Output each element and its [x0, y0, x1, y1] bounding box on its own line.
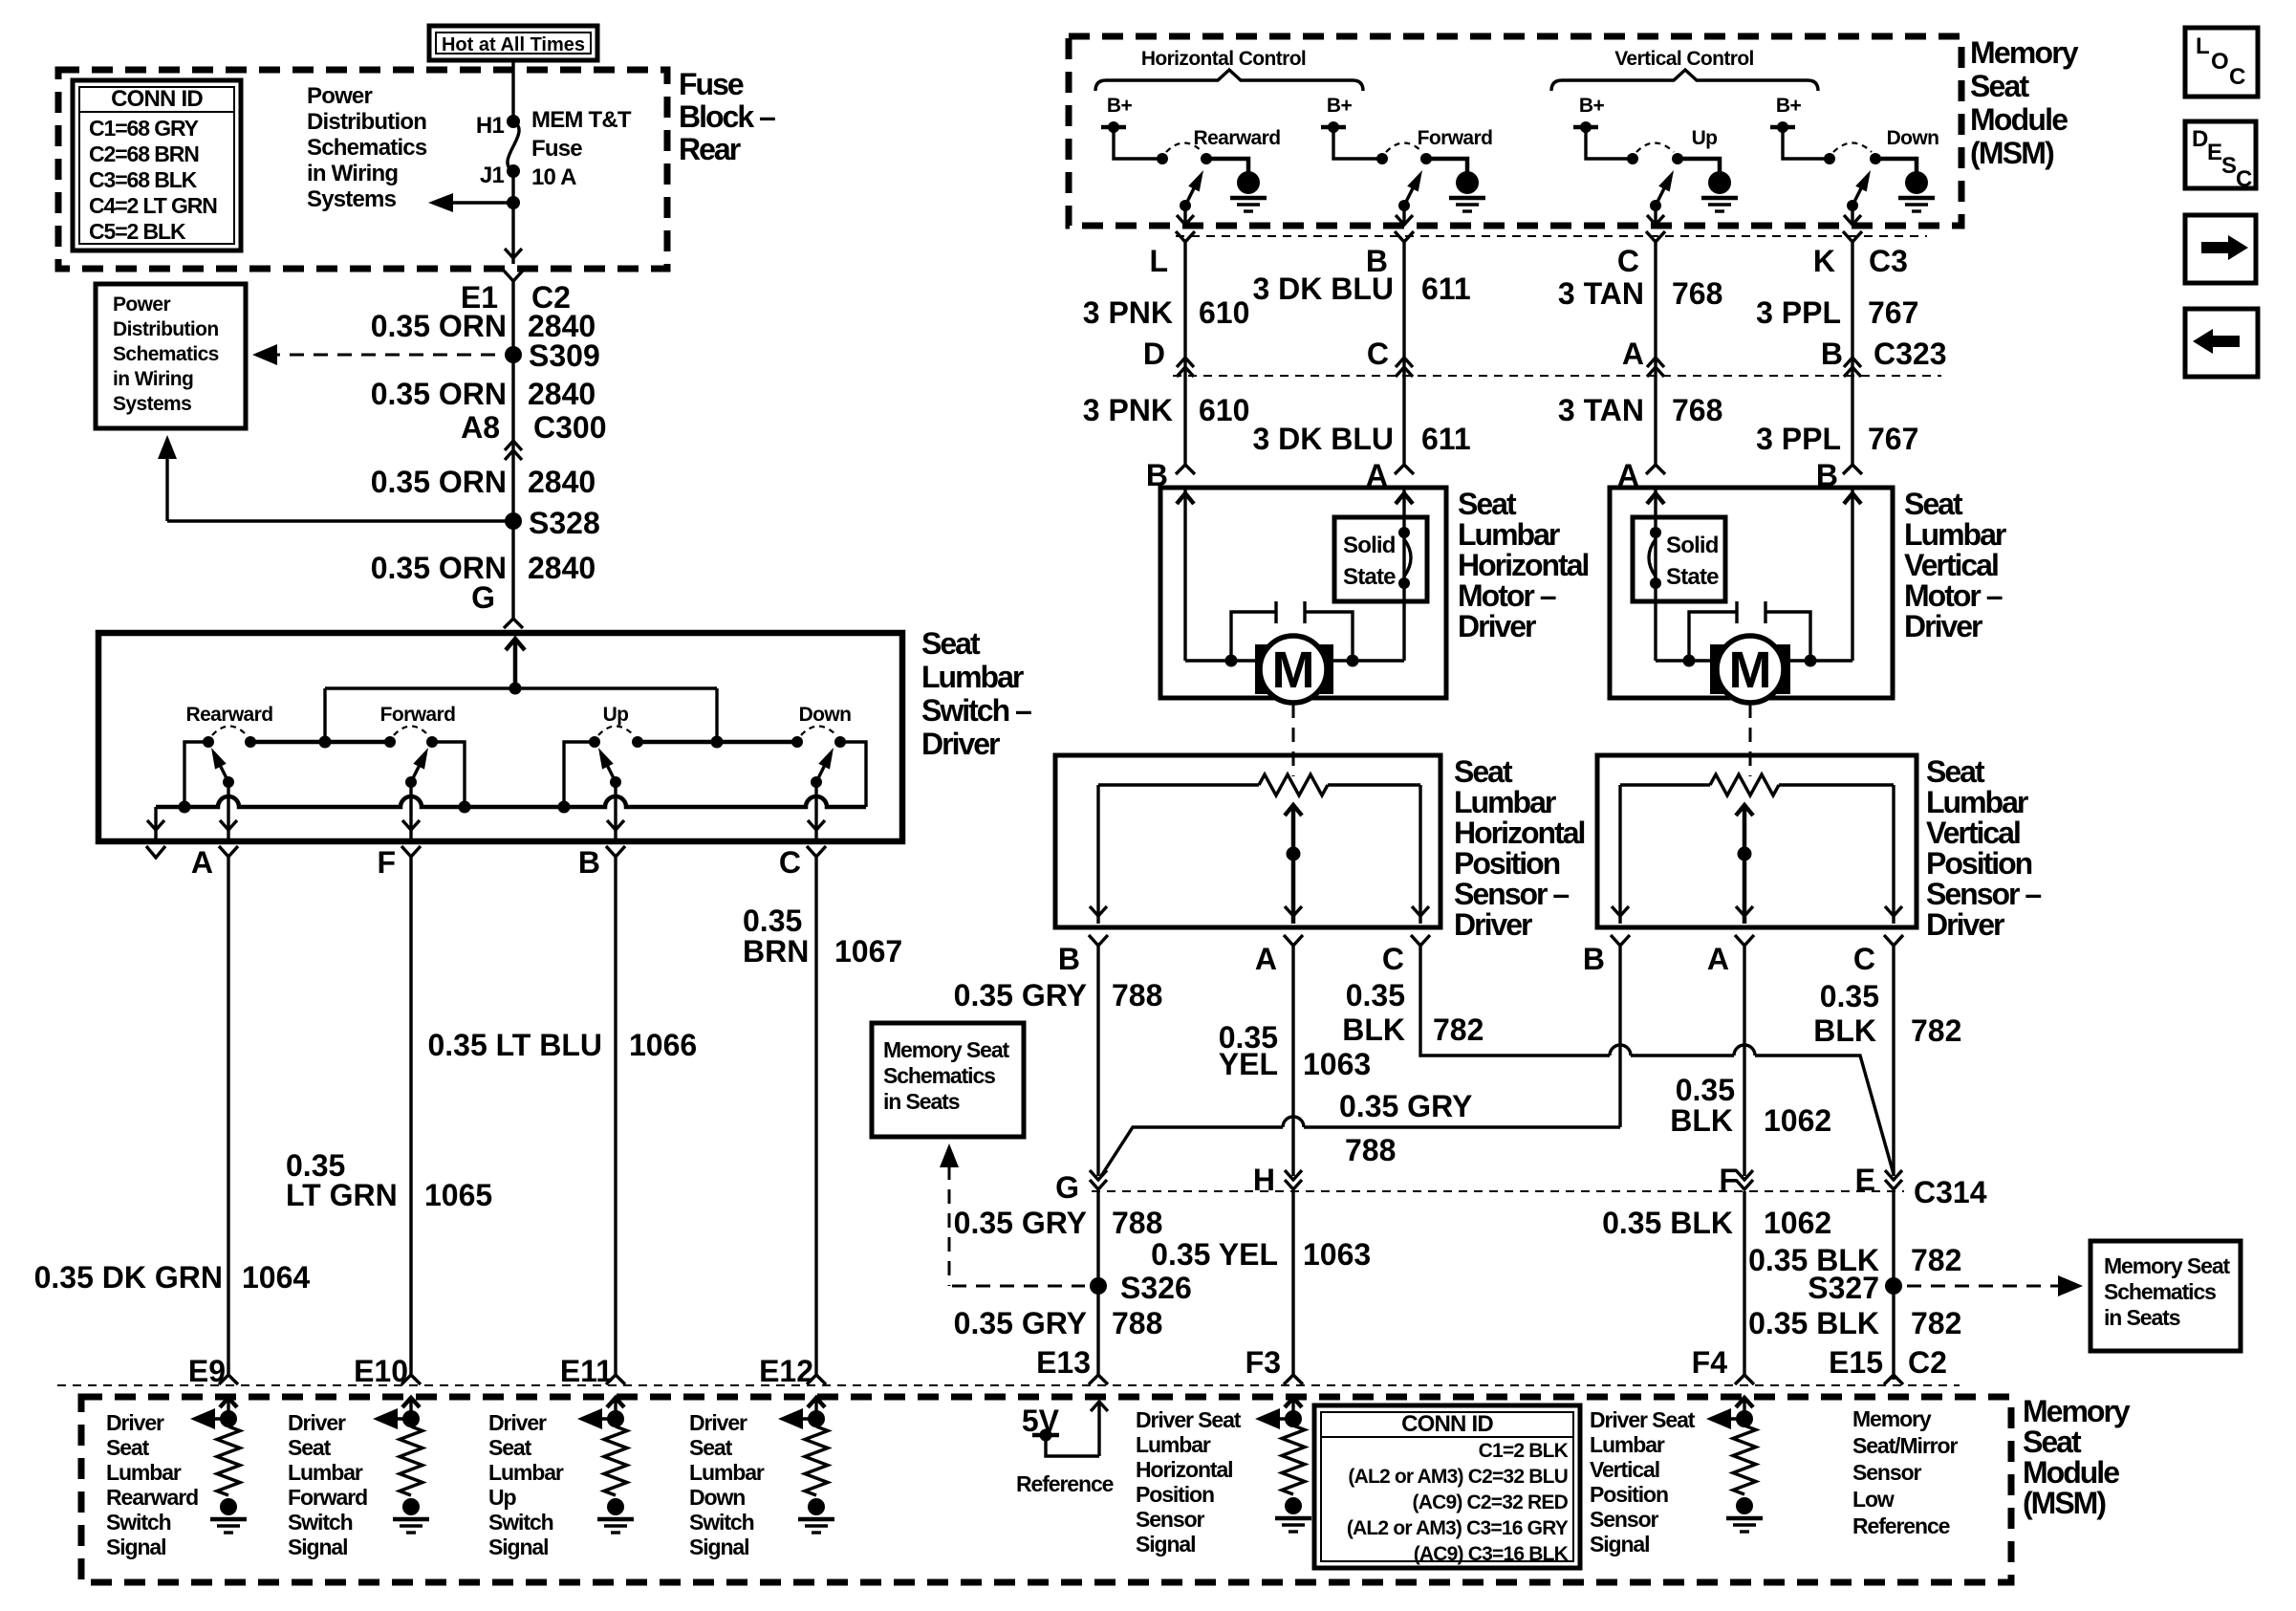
connector fork E1/C2: [504, 271, 523, 281]
svg-text:S328: S328: [529, 506, 600, 540]
junction to power distribution arrow: [507, 196, 520, 209]
svg-text:1066: 1066: [629, 1028, 697, 1062]
branch arrow to signal name: [206, 1417, 228, 1420]
svg-text:A: A: [1707, 942, 1729, 976]
connector C323 dashed line: [1173, 375, 1941, 377]
svg-text:2840: 2840: [528, 465, 596, 499]
svg-text:0.35 GRY: 0.35 GRY: [954, 1306, 1087, 1340]
pin fork at module: [219, 1375, 238, 1384]
pin fork at module: [807, 1375, 826, 1384]
svg-text:1062: 1062: [1764, 1103, 1831, 1138]
lever Up: [1650, 200, 1661, 211]
svg-text:F4: F4: [1692, 1345, 1728, 1380]
resistor: [400, 1426, 422, 1495]
pin fork at module: [606, 1375, 625, 1384]
svg-text:0.35 LT BLU: 0.35 LT BLU: [427, 1028, 602, 1062]
ground stub Rearward: [1206, 159, 1248, 172]
wire A right sensor to F (0.35 BLK 1062): [1743, 946, 1745, 1176]
module internal wire/arrow: [614, 1398, 617, 1419]
svg-text:611: 611: [1421, 422, 1471, 456]
svg-text:Hot at All Times: Hot at All Times: [442, 34, 585, 55]
svg-text:C323: C323: [1874, 337, 1947, 371]
Forward right contact drop: [432, 742, 465, 807]
svg-text:F3: F3: [1245, 1345, 1281, 1380]
switch contact dots Rearward: [203, 736, 214, 748]
svg-text:B: B: [1583, 942, 1605, 976]
C323 crossing arrows at 1240: [1177, 367, 1194, 377]
svg-text:D: D: [1143, 337, 1165, 371]
svg-text:B+: B+: [1107, 95, 1133, 117]
svg-text:3 DK BLU: 3 DK BLU: [1252, 422, 1394, 456]
ground stub Forward: [1426, 159, 1467, 172]
svg-text:2840: 2840: [528, 551, 596, 585]
fork at motor pin 1938: [1843, 465, 1862, 474]
svg-text:YEL: YEL: [1219, 1047, 1278, 1081]
fork below C3 at 1469: [1395, 231, 1414, 242]
dashed arc Up: [598, 727, 634, 736]
suppressor capacitor (left motor): [1276, 601, 1305, 623]
svg-text:C300: C300: [533, 410, 607, 445]
svg-text:C: C: [1853, 942, 1875, 976]
svg-text:767: 767: [1868, 295, 1918, 330]
svg-text:K: K: [1813, 244, 1835, 278]
left arrow legend box: [2185, 309, 2258, 377]
potentiometer (left sensor): [1098, 783, 1259, 786]
Seat Lumbar Switch - Driver box: [98, 633, 902, 841]
arrow to power distribution (left): [445, 201, 513, 204]
potentiometer (right sensor): [1620, 783, 1710, 786]
Hot at All Times label box: [429, 26, 597, 60]
svg-text:0.35: 0.35: [1346, 978, 1405, 1012]
svg-text:782: 782: [1911, 1013, 1961, 1048]
svg-text:C: C: [1367, 337, 1389, 371]
svg-text:3 PPL: 3 PPL: [1756, 295, 1841, 330]
G feed entry arrow: [513, 639, 518, 688]
svg-text:BLK: BLK: [1813, 1013, 1876, 1048]
motor M (right): [1656, 659, 1852, 662]
svg-text:Down: Down: [799, 704, 852, 726]
wiper (left sensor): [1291, 805, 1296, 924]
switch contacts Rearward: [1157, 153, 1168, 164]
switch output wire Down: [1851, 206, 1853, 226]
svg-text:Horizontal Control: Horizontal Control: [1141, 48, 1306, 70]
svg-text:B+: B+: [1776, 95, 1802, 117]
Seat Lumbar Vertical Motor - Driver box: [1610, 488, 1893, 698]
svg-text:0.35 GRY: 0.35 GRY: [954, 1206, 1087, 1240]
lever Rearward: [223, 776, 234, 788]
svg-text:O: O: [2211, 49, 2228, 75]
wire segment 1732 C323 to motor: [1654, 376, 1657, 465]
svg-text:0.35: 0.35: [1676, 1073, 1735, 1107]
left motor A wire: [1402, 488, 1405, 661]
svg-text:F: F: [377, 845, 396, 880]
svg-text:LT GRN: LT GRN: [286, 1178, 398, 1212]
wire B left sensor to G (0.35 GRY 788): [1096, 946, 1099, 1176]
svg-text:1065: 1065: [424, 1178, 492, 1212]
svg-text:BRN: BRN: [743, 934, 809, 969]
svg-text:B: B: [1821, 337, 1843, 371]
switch contacts Forward: [1376, 153, 1388, 164]
wire C down to module: [814, 857, 817, 1375]
switch contacts Up: [1627, 153, 1638, 164]
svg-text:L: L: [1149, 244, 1168, 278]
svg-text:788: 788: [1112, 1306, 1162, 1340]
Memory Seat Schematics in Seats box (left): [872, 1023, 1024, 1137]
dashed link motor to sensor (right): [1749, 704, 1752, 776]
svg-text:BLK: BLK: [1342, 1012, 1405, 1047]
wire H to F3 (0.35 YEL 1063): [1291, 1191, 1294, 1375]
fork at motor pin 1469: [1395, 465, 1414, 474]
lever Rearward: [1180, 200, 1191, 211]
dashed arc Down: [801, 727, 836, 736]
wiper (right sensor): [1743, 805, 1747, 924]
Solid State box (left motor): [1334, 517, 1427, 601]
switch output wire Forward: [1402, 206, 1405, 226]
svg-text:Up: Up: [1692, 127, 1718, 149]
lever Up: [610, 776, 621, 788]
svg-text:Reference: Reference: [1016, 1471, 1114, 1496]
LOC legend box: [2185, 28, 2258, 97]
svg-text:M: M: [1729, 642, 1772, 699]
svg-text:B+: B+: [1579, 95, 1605, 117]
svg-text:BLK: BLK: [1670, 1103, 1733, 1138]
svg-text:B: B: [578, 845, 600, 880]
ground: [220, 1498, 237, 1515]
svg-text:CONN ID: CONN ID: [111, 86, 203, 112]
Solid State box (right motor): [1633, 517, 1725, 601]
common bus with hops: [156, 796, 866, 807]
svg-text:788: 788: [1112, 978, 1162, 1012]
wire below fuse: [511, 171, 514, 264]
lever wire down Forward: [409, 782, 412, 838]
switch contact dots Forward: [384, 736, 396, 748]
svg-text:C: C: [779, 845, 801, 880]
wire F down to module: [409, 857, 412, 1375]
wire segment 1938 C3 to C323: [1851, 242, 1853, 376]
svg-text:H1: H1: [476, 113, 505, 139]
switch contacts Down: [1824, 153, 1835, 164]
svg-text:G: G: [1055, 1170, 1079, 1205]
module internal wire/arrow: [227, 1398, 229, 1419]
svg-text:768: 768: [1672, 393, 1722, 427]
svg-text:B+: B+: [1327, 95, 1353, 117]
motor M (left): [1185, 659, 1404, 662]
ground: [808, 1498, 825, 1515]
fuse F MEM T&T 10A: [507, 115, 520, 128]
ground: [402, 1498, 420, 1515]
svg-text:G: G: [471, 580, 495, 615]
fork below C3 at 1240: [1176, 231, 1195, 242]
Power Distribution Schematics box: [96, 284, 246, 428]
svg-text:C3: C3: [1869, 244, 1908, 278]
connector C314 dashed line: [1092, 1190, 1904, 1192]
Down right contact drop: [840, 742, 866, 807]
svg-text:3 PPL: 3 PPL: [1756, 422, 1841, 456]
fork below C3 at 1938: [1843, 231, 1862, 242]
resistor: [217, 1426, 240, 1495]
svg-text:E: E: [1855, 1163, 1875, 1197]
svg-text:0.35 ORN: 0.35 ORN: [371, 377, 507, 411]
wire G to E13 (0.35 GRY 788): [1096, 1191, 1099, 1375]
connector C3 dashed line: [1176, 235, 1927, 237]
svg-text:1063: 1063: [1303, 1237, 1371, 1272]
fork at motor pin 1732: [1646, 465, 1665, 474]
dashed arc Forward: [394, 727, 428, 736]
svg-text:0.35 YEL: 0.35 YEL: [1151, 1237, 1278, 1272]
svg-text:D: D: [2192, 126, 2208, 152]
lever wire down Rearward: [227, 782, 229, 838]
fork below C3 at 1732: [1646, 231, 1665, 242]
Rearward left contact drop: [184, 742, 208, 807]
svg-text:L: L: [2196, 33, 2209, 59]
svg-text:E12: E12: [759, 1354, 813, 1388]
branch arrow to signal name: [388, 1417, 411, 1420]
svg-text:J1: J1: [480, 163, 505, 188]
svg-text:1063: 1063: [1303, 1047, 1371, 1081]
wire segment 1732 C3 to C323: [1654, 242, 1657, 376]
wire B down to module: [614, 857, 617, 1375]
right arrow legend box: [2185, 215, 2256, 283]
wire E to E15 (0.35 BLK 782): [1892, 1191, 1895, 1380]
svg-text:CONN ID: CONN ID: [1401, 1411, 1493, 1437]
svg-text:E11: E11: [560, 1354, 613, 1388]
ground: [607, 1498, 624, 1515]
svg-text:0.35 GRY: 0.35 GRY: [1339, 1089, 1472, 1123]
svg-text:3 TAN: 3 TAN: [1558, 393, 1644, 427]
connector C300 crossing: [505, 450, 522, 460]
svg-text:782: 782: [1911, 1306, 1961, 1340]
svg-text:S327: S327: [1808, 1271, 1879, 1305]
svg-text:E13: E13: [1036, 1345, 1091, 1380]
svg-text:3 PNK: 3 PNK: [1083, 295, 1173, 330]
svg-text:E: E: [2207, 140, 2222, 165]
splice S326: [1090, 1277, 1107, 1295]
svg-text:782: 782: [1433, 1012, 1484, 1047]
splice S328: [505, 512, 522, 530]
svg-text:3 PNK: 3 PNK: [1083, 393, 1173, 427]
arrow exiting fuse block: [505, 249, 522, 258]
lever Forward: [1398, 200, 1410, 211]
feed line: [325, 686, 717, 689]
wire segment 1240 C3 to C323: [1183, 242, 1186, 376]
svg-text:A8: A8: [461, 410, 500, 445]
svg-text:Forward: Forward: [380, 704, 456, 726]
branch arrow to signal name: [793, 1417, 816, 1420]
contact line Up-Down: [638, 740, 797, 745]
open connector v below box: [146, 846, 165, 858]
CONN ID table (fuse block): [73, 80, 241, 250]
wire F to F4 (0.35 BLK 1062): [1743, 1191, 1745, 1375]
wire from Hot at All Times into fuse: [511, 60, 514, 121]
left motor B wire: [1183, 488, 1186, 661]
svg-text:3 TAN: 3 TAN: [1558, 276, 1644, 311]
module internal wire/arrow: [814, 1398, 817, 1419]
svg-text:788: 788: [1112, 1206, 1162, 1240]
svg-text:0.35 BLK: 0.35 BLK: [1748, 1306, 1879, 1340]
svg-text:Rearward: Rearward: [1194, 127, 1281, 149]
svg-text:0.35 DK GRN: 0.35 DK GRN: [34, 1260, 223, 1295]
C323 crossing arrows at 1938: [1844, 367, 1861, 377]
svg-text:C2: C2: [1908, 1345, 1947, 1380]
lever Down: [1847, 200, 1858, 211]
svg-text:2840: 2840: [528, 377, 596, 411]
ground stub Up: [1678, 159, 1720, 172]
svg-text:Vertical Control: Vertical Control: [1614, 48, 1754, 70]
Memory Seat Module (MSM) bottom dashed box: [81, 1397, 2011, 1582]
resistor: [604, 1426, 627, 1495]
wire A down to module: [227, 857, 229, 1375]
Seat Lumbar Horizontal Motor - Driver box: [1160, 488, 1446, 698]
suppressor capacitor (right motor): [1737, 601, 1765, 623]
bus exit arrow: [154, 807, 157, 838]
svg-text:3 DK BLU: 3 DK BLU: [1252, 272, 1394, 306]
svg-text:A: A: [1622, 337, 1644, 371]
Up left contact drop: [564, 742, 595, 807]
svg-text:C: C: [1382, 942, 1404, 976]
wire segment 1240 C323 to motor: [1183, 376, 1186, 465]
svg-text:788: 788: [1345, 1133, 1396, 1167]
svg-text:1064: 1064: [242, 1260, 310, 1295]
branch arrow to signal name: [593, 1417, 616, 1420]
dashed arc Rearward: [212, 727, 247, 736]
svg-text:C: C: [2229, 64, 2245, 90]
svg-text:768: 768: [1672, 276, 1722, 311]
svg-text:0.35: 0.35: [1820, 979, 1879, 1013]
module connector dashed line (bottom): [57, 1384, 1960, 1386]
Memory Seat Module (MSM) top dashed box: [1069, 36, 1961, 226]
E13 5V reference: [1097, 1402, 1100, 1456]
splice S327: [1885, 1277, 1902, 1295]
svg-text:1067: 1067: [834, 934, 902, 969]
svg-text:M: M: [1272, 642, 1315, 699]
svg-text:611: 611: [1421, 272, 1471, 306]
wire A left sensor to H (0.35 YEL 1063): [1291, 946, 1294, 1176]
pin fork at module: [401, 1375, 421, 1384]
Memory Seat Schematics in Seats box (right): [2090, 1241, 2241, 1351]
svg-text:0.35 BLK: 0.35 BLK: [1602, 1206, 1733, 1240]
lever Forward: [405, 776, 417, 788]
svg-text:B: B: [1058, 942, 1080, 976]
svg-text:782: 782: [1911, 1243, 1961, 1277]
ground stub Down: [1875, 159, 1917, 172]
wire segment 1469 C3 to C323: [1402, 242, 1405, 376]
wire segment 1469 C323 to motor: [1402, 376, 1405, 465]
right motor A wire: [1654, 488, 1657, 661]
Fuse Block - Rear dashed box: [58, 70, 667, 269]
svg-text:C: C: [2236, 166, 2252, 192]
svg-text:E15: E15: [1829, 1345, 1883, 1380]
lever wire down Up: [614, 782, 617, 838]
svg-text:S326: S326: [1120, 1271, 1192, 1305]
switch contact dots Up: [589, 736, 600, 748]
svg-text:Up: Up: [603, 704, 629, 726]
switch output wire Rearward: [1183, 206, 1186, 226]
CONN ID table (module): [1314, 1405, 1580, 1568]
svg-text:Down: Down: [1887, 127, 1939, 149]
svg-text:C: C: [1617, 244, 1639, 278]
lever Down: [811, 776, 822, 788]
wire B right sensor crossover to G (0.35 GRY 788): [1618, 946, 1621, 1127]
switch contact dots Down: [791, 736, 803, 748]
right motor B wire: [1851, 488, 1853, 661]
svg-text:S: S: [2221, 153, 2237, 179]
Seat Lumbar Horizontal Position Sensor - Driver box: [1055, 755, 1440, 927]
C323 crossing arrows at 1469: [1396, 367, 1413, 377]
contact line Rearward-Forward: [250, 740, 390, 745]
svg-text:0.35 ORN: 0.35 ORN: [371, 309, 507, 343]
svg-text:610: 610: [1199, 295, 1249, 330]
svg-text:A: A: [1255, 942, 1277, 976]
svg-text:E10: E10: [354, 1354, 408, 1388]
svg-text:610: 610: [1199, 393, 1249, 427]
dashed link motor to sensor (left): [1292, 704, 1295, 776]
svg-text:H: H: [1253, 1163, 1275, 1197]
DESC legend box: [2185, 121, 2256, 188]
switch output wire Up: [1654, 206, 1657, 226]
svg-text:0.35 GRY: 0.35 GRY: [954, 978, 1087, 1012]
Seat Lumbar Vertical Position Sensor - Driver box: [1597, 755, 1917, 927]
svg-text:0.35 ORN: 0.35 ORN: [371, 465, 507, 499]
svg-text:S309: S309: [529, 338, 600, 373]
wire C right sensor to E15 (0.35 BLK 782): [1892, 946, 1895, 1176]
module internal wire/arrow: [409, 1398, 412, 1419]
resistor: [805, 1426, 828, 1495]
fork at motor pin 1240: [1176, 465, 1195, 474]
svg-text:F: F: [1719, 1163, 1738, 1197]
svg-text:C314: C314: [1914, 1175, 1987, 1209]
svg-text:Rearward: Rearward: [186, 704, 273, 726]
svg-text:0.35: 0.35: [743, 903, 802, 938]
splice S309: [505, 346, 522, 363]
C323 crossing arrows at 1732: [1647, 367, 1664, 377]
svg-text:767: 767: [1868, 422, 1918, 456]
lever wire down Down: [814, 782, 817, 838]
svg-text:1062: 1062: [1764, 1206, 1831, 1240]
svg-text:A: A: [191, 845, 213, 880]
wire segment 1938 C323 to motor: [1851, 376, 1853, 465]
svg-text:Forward: Forward: [1418, 127, 1493, 149]
